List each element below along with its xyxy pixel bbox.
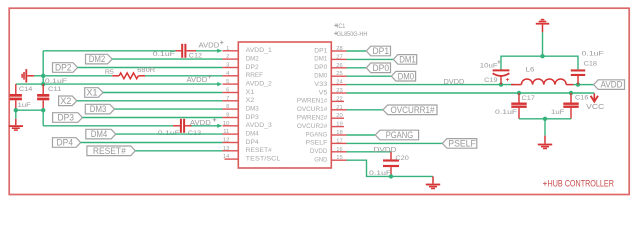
wire DM2 to pin2 — [112, 58, 222, 60]
wire DP4 to pin12 — [81, 142, 223, 144]
svg-text:GND: GND — [314, 157, 327, 164]
svg-text:DM2: DM2 — [89, 54, 106, 64]
junction C19 bottom — [499, 82, 503, 86]
svg-text:DM0: DM0 — [398, 71, 415, 81]
tag X1 — [85, 88, 103, 98]
wire cap bottoms — [16, 109, 43, 111]
tag PSELF — [442, 139, 477, 149]
pin stub right 15 — [331, 159, 346, 161]
svg-text:AVDD: AVDD — [199, 43, 220, 50]
pin stub left 1 — [223, 50, 239, 52]
pin stub right 28 — [331, 50, 346, 52]
svg-text:C14: C14 — [19, 86, 33, 93]
svg-text:DP0: DP0 — [373, 63, 390, 73]
capacitor C17 — [511, 93, 526, 119]
junction mid bottom — [543, 117, 547, 121]
tag DM0 — [391, 71, 415, 81]
wire pin25 to DM0 — [347, 75, 392, 77]
pin stub right 27 — [331, 58, 346, 60]
svg-text:X1: X1 — [87, 88, 98, 98]
pin stub right 26 — [331, 67, 346, 69]
svg-text:C17: C17 — [522, 95, 536, 102]
svg-text:RREF: RREF — [246, 72, 263, 79]
wire pin15 gnd — [347, 160, 434, 176]
ground below C14 — [9, 110, 23, 130]
svg-text:GL850G-HH: GL850G-HH — [337, 31, 368, 38]
svg-text:DM2: DM2 — [246, 55, 259, 62]
svg-text:V33: V33 — [314, 81, 327, 88]
svg-text:DP1: DP1 — [373, 46, 390, 56]
capacitor C14 — [10, 84, 22, 110]
wire DP2 to pin3 — [78, 67, 223, 69]
svg-text:DP2: DP2 — [55, 63, 72, 73]
svg-text:DP1: DP1 — [314, 47, 327, 54]
tag RESET# — [87, 146, 135, 156]
tag DP1 — [366, 46, 390, 56]
svg-text:IC1: IC1 — [337, 23, 346, 30]
svg-text:DM0: DM0 — [314, 73, 327, 80]
wire cap bottoms right — [519, 118, 571, 120]
svg-text:AVDD: AVDD — [601, 80, 623, 90]
svg-text:AVDD: AVDD — [187, 77, 208, 84]
capacitor C18 — [571, 69, 585, 84]
svg-text:AVDD_2: AVDD_2 — [246, 80, 272, 87]
svg-text:DP4: DP4 — [57, 138, 74, 148]
junction C16 top — [569, 91, 573, 95]
svg-text:10uF: 10uF — [480, 62, 498, 69]
wire pin28 to DP1 — [347, 50, 367, 52]
svg-text:PGANG: PGANG — [306, 131, 328, 138]
tag AVDD — [594, 80, 625, 90]
svg-text:0.1uF: 0.1uF — [495, 109, 517, 116]
svg-text:PSELF: PSELF — [448, 139, 476, 149]
svg-text:DP0: DP0 — [314, 64, 327, 71]
pin stub right 19 — [331, 126, 344, 128]
GL850G-HH value label — [334, 32, 338, 36]
ground right of C20 — [426, 176, 440, 188]
svg-text:AVDD_1: AVDD_1 — [246, 47, 272, 54]
svg-text:DP3: DP3 — [246, 114, 259, 121]
wire pin21 to OVCURR1# — [347, 109, 384, 111]
wire L6 to C18 junction — [574, 84, 579, 86]
capacitor C11 — [37, 84, 49, 110]
pin stub left 12 — [223, 142, 239, 144]
wire RESET# to pin13 — [135, 150, 222, 152]
svg-text:OVCURR1#: OVCURR1# — [391, 105, 435, 115]
tag X2 — [59, 96, 77, 106]
wire gnd vertical x=43 — [42, 51, 44, 84]
tag DM4 — [86, 129, 116, 139]
capacitor C19 polarized — [493, 69, 510, 84]
svg-text:DP2: DP2 — [246, 64, 259, 71]
junction row4-vertical — [41, 74, 45, 78]
pin stub left 8 — [223, 108, 239, 110]
wire row10 to C13 — [43, 125, 173, 127]
ground below C16/C17 — [538, 119, 552, 149]
svg-text:0.1uF: 0.1uF — [153, 51, 175, 58]
wire X1 to pin6 — [103, 92, 223, 94]
tag PGANG — [375, 130, 418, 140]
wire C13 to pin10 — [192, 125, 222, 127]
svg-text:TEST/SCL: TEST/SCL — [246, 155, 281, 162]
wire pin24 DVDD — [347, 84, 515, 86]
pin stub right 17 — [331, 142, 346, 144]
sheet title HUB CONTROLLER — [543, 182, 547, 186]
svg-text:AVDD_3: AVDD_3 — [246, 122, 272, 129]
svg-text:DVDD: DVDD — [374, 145, 397, 154]
junction rail-vertical — [41, 82, 45, 86]
svg-text:X1: X1 — [246, 89, 255, 96]
svg-text:HUB CONTROLLER: HUB CONTROLLER — [548, 177, 615, 188]
wire pin18 to PGANG — [347, 134, 376, 136]
wire DP3 to pin9 — [82, 117, 222, 119]
pin stub right 16 — [331, 151, 346, 153]
wire pin16 DVDD — [347, 151, 392, 153]
wire AVDD rail row5 — [16, 83, 218, 85]
svg-text:DM1: DM1 — [314, 56, 327, 63]
pin stub right 25 — [331, 75, 346, 77]
svg-text:RESET#: RESET# — [93, 146, 126, 156]
tag DM3 — [85, 104, 114, 114]
pin stub left 3 — [223, 67, 239, 69]
wire top rail — [501, 56, 578, 69]
svg-text:C19: C19 — [484, 77, 498, 84]
pin stub right 23 — [331, 92, 346, 94]
wire pin17 to PSELF — [347, 142, 443, 144]
wire DM4 to pin11 — [116, 133, 223, 135]
tag DM1 — [393, 55, 416, 65]
supply symbol +5V — [536, 20, 549, 33]
junction C18 bottom — [576, 82, 580, 86]
pin stub right 21 — [331, 109, 346, 111]
svg-text:1uF: 1uF — [551, 109, 565, 116]
svg-text:DM3: DM3 — [90, 104, 107, 114]
pin stub left 2 — [223, 58, 239, 60]
capacitor C12 — [176, 44, 197, 58]
pin stub left 4 — [223, 75, 239, 77]
svg-text:C18: C18 — [584, 60, 598, 67]
svg-text:DM3: DM3 — [246, 105, 259, 112]
svg-text:X2: X2 — [246, 97, 255, 104]
wire gnd to vertical — [34, 75, 43, 77]
pin stub right 18 — [331, 134, 346, 136]
frame border — [9, 8, 629, 194]
pin stub left 9 — [223, 117, 239, 119]
svg-text:DP3: DP3 — [58, 113, 75, 123]
tag DM2 — [86, 54, 113, 64]
capacitor C13 — [173, 119, 192, 133]
svg-text:R5: R5 — [105, 69, 114, 76]
svg-text:DVDD: DVDD — [310, 148, 328, 155]
svg-text:PGANG: PGANG — [386, 130, 414, 140]
wire C12 to pin1 — [196, 50, 221, 52]
svg-text:L6: L6 — [526, 66, 536, 73]
pin stub left 14 — [225, 158, 239, 160]
wire to AVDD tag — [578, 84, 594, 86]
tag DP3 — [53, 113, 83, 123]
IC1 reference label — [334, 24, 338, 28]
wire rref left — [43, 75, 112, 77]
svg-text:X2: X2 — [60, 96, 71, 106]
svg-text:DM1: DM1 — [399, 55, 416, 65]
pin stub right 22 — [331, 100, 344, 102]
wire row1 to C12 — [43, 50, 175, 52]
svg-text:C12: C12 — [189, 52, 203, 59]
supply VCC arrow — [591, 93, 598, 101]
wire DM3 to pin8 — [115, 108, 223, 110]
wire pin27 to DM1 — [347, 58, 394, 60]
svg-text:PWREN1#: PWREN1# — [297, 98, 328, 105]
pin stub left 6 — [223, 92, 239, 94]
svg-text:DM4: DM4 — [91, 129, 108, 139]
tag OVCURR1# — [383, 105, 437, 115]
svg-text:680R: 680R — [137, 67, 155, 74]
svg-text:AVDD: AVDD — [190, 120, 211, 127]
svg-text:PSELF: PSELF — [306, 140, 328, 147]
net arrow row1 — [217, 49, 222, 53]
wire pin26 to DP0 — [347, 67, 367, 69]
svg-text:OVCUR1#: OVCUR1# — [297, 106, 328, 113]
svg-text:V5: V5 — [319, 89, 328, 96]
wire X2 to pin7 — [77, 100, 223, 102]
net arrow row10 — [217, 124, 222, 128]
net arrow row5 — [217, 82, 222, 86]
pin stub right 24 — [331, 84, 346, 86]
pin stub left 11 — [223, 133, 239, 135]
svg-text:DM4: DM4 — [246, 130, 259, 137]
junction C14 bottom — [14, 108, 18, 112]
pin stub left 10 — [223, 125, 239, 127]
svg-text:C11: C11 — [48, 86, 62, 93]
svg-text:C16: C16 — [575, 94, 589, 101]
tag DP0 — [366, 63, 390, 73]
junction C20 bottom — [389, 174, 393, 178]
svg-text:C20: C20 — [395, 155, 409, 162]
svg-text:0.1uF: 0.1uF — [582, 50, 604, 57]
svg-text:OVCUR2#: OVCUR2# — [297, 123, 328, 130]
svg-text:PWREN2#: PWREN2# — [297, 115, 328, 122]
pin stub left 5 — [223, 83, 239, 85]
wire supply to rail — [542, 32, 544, 56]
pin stub left 13 — [223, 150, 239, 152]
inductor L6 — [511, 79, 574, 85]
svg-text:1uF: 1uF — [18, 102, 32, 109]
capacitor C16 — [563, 93, 578, 119]
ground rotated left — [22, 69, 34, 82]
junction C11 bottom — [41, 108, 45, 112]
svg-text:DVDD: DVDD — [444, 77, 465, 86]
wire pin23 V5 rail — [347, 92, 595, 94]
junction C17 top — [517, 91, 521, 95]
tag DP2 — [53, 63, 78, 73]
wire R5 to pin4 — [145, 75, 223, 77]
junction supply-rail — [540, 54, 544, 58]
tag DP4 — [53, 138, 81, 148]
svg-text:RESET#: RESET# — [246, 147, 272, 154]
hub controller IC1 GL850G-HH box — [238, 42, 331, 168]
resistor R5 — [112, 73, 145, 79]
pin stub left 7 — [223, 100, 239, 102]
capacitor C20 — [383, 152, 399, 177]
wire C11-bottom down — [42, 110, 44, 126]
svg-text:VCC: VCC — [586, 102, 605, 111]
svg-text:DP4: DP4 — [246, 139, 259, 146]
pin stub right 20 — [331, 117, 344, 119]
